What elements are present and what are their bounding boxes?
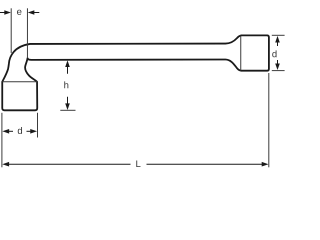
wrench body silhouette [2, 35, 269, 110]
label d right [272, 50, 276, 57]
left socket face line (top edge) [2, 81, 37, 83]
extension line e right [26, 8, 28, 58]
h bottom tick [60, 109, 75, 111]
dimension d right [275, 36, 280, 70]
extension line L right [268, 73, 270, 167]
right socket face line (left edge) [240, 36, 242, 71]
dimension L [2, 162, 268, 167]
dimension h [65, 60, 70, 110]
extension lines d bottom [1, 113, 3, 168]
label e [17, 10, 21, 15]
label d bottom [18, 127, 22, 134]
dimension d bottom [2, 129, 37, 134]
right d ticks [272, 34, 285, 36]
label h [64, 81, 68, 88]
dimension e [0, 10, 39, 15]
extension line e left [10, 8, 12, 53]
label L [136, 160, 140, 167]
